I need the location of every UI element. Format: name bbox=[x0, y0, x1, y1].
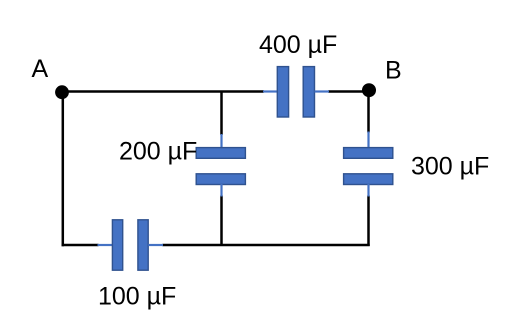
node B terminal dot bbox=[362, 83, 376, 97]
svg-text:400 µF: 400 µF bbox=[259, 31, 337, 59]
svg-text:300 µF: 300 µF bbox=[411, 152, 489, 180]
wire: middle vertical upper from top rail junction to C2 top lead bbox=[220, 92, 223, 136]
wire: bottom rail left segment to C4 left lead bbox=[62, 244, 99, 247]
wire: bottom rail middle segment from C4 right lead to bottom-right corner bbox=[163, 244, 370, 247]
svg-text:A: A bbox=[32, 55, 49, 83]
svg-text:B: B bbox=[385, 57, 402, 85]
svg-text:200 µF: 200 µF bbox=[119, 137, 197, 165]
wire: middle vertical lower from C2 bottom lead to bottom rail bbox=[220, 196, 223, 246]
wire: right vertical lower from C3 bottom lead to bottom rail bbox=[367, 196, 370, 247]
capacitor C2 200 uF (middle branch) bbox=[196, 134, 245, 197]
node A terminal dot bbox=[55, 85, 69, 99]
svg-text:100 µF: 100 µF bbox=[98, 282, 176, 310]
wire: top right segment from C1 right lead to node B bbox=[328, 90, 369, 92]
wire: left vertical from node A down to bottom rail bbox=[62, 92, 65, 247]
wire: top left segment from node A to C1 left lead bbox=[62, 90, 264, 92]
capacitor C3 300 uF (right branch) bbox=[344, 132, 393, 197]
capacitor C4 100 uF (bottom branch) bbox=[98, 220, 164, 270]
wire: right vertical upper from node B to C3 top lead bbox=[367, 96, 370, 133]
capacitor C1 400 uF (series, top branch) bbox=[263, 67, 329, 117]
